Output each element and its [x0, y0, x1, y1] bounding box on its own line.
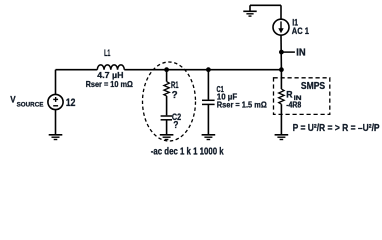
- svg-text:SOURCE: SOURCE: [17, 101, 44, 108]
- svg-text:Rser = 10 mΩ: Rser = 10 mΩ: [86, 79, 134, 89]
- wire IN label tick: [281, 51, 295, 53]
- voltage source V_SOURCE: [48, 70, 63, 135]
- svg-text:?: ?: [172, 90, 178, 101]
- wire down to R1: [166, 70, 168, 82]
- node junction dot A: [164, 67, 169, 72]
- dashed box SMPS: [274, 78, 330, 115]
- svg-text:Rser = 1.5 mΩ: Rser = 1.5 mΩ: [217, 99, 267, 109]
- wire RIN to ground: [280, 104, 282, 134]
- svg-text:-ac dec 1 k 1 1000 k: -ac dec 1 k 1 1000 k: [151, 147, 224, 158]
- svg-text:L1: L1: [104, 48, 110, 58]
- ground under C2: [160, 135, 174, 140]
- ground under C1: [202, 135, 216, 140]
- label RIN: [286, 88, 302, 102]
- capacitor C1: [202, 100, 215, 104]
- wire R1 to C2: [166, 96, 168, 115]
- ground under V_SOURCE: [49, 135, 63, 140]
- wire C2 to ground: [166, 120, 168, 134]
- wire down to RIN: [280, 70, 282, 89]
- svg-text:?: ?: [173, 120, 178, 131]
- svg-text:12: 12: [66, 97, 76, 109]
- wire top rail right segment: [124, 69, 281, 71]
- wire down to C1: [207, 70, 209, 100]
- current source I1: [273, 19, 289, 35]
- svg-text:V: V: [10, 95, 16, 106]
- capacitor C2: [161, 116, 172, 120]
- wire top rail left segment: [56, 69, 98, 71]
- wire top ground horizontal: [250, 4, 281, 6]
- svg-text:SMPS: SMPS: [301, 81, 325, 92]
- node junction dot B: [206, 67, 211, 72]
- node junction dot C: [279, 67, 284, 72]
- svg-text:AC 1: AC 1: [292, 26, 310, 37]
- label V_SOURCE: [10, 95, 44, 109]
- resistor RIN: [279, 89, 284, 104]
- svg-text:-4R8: -4R8: [286, 101, 302, 110]
- svg-text:P = U²/R = > R = –U²/P: P = U²/R = > R = –U²/P: [293, 123, 380, 134]
- svg-text:R: R: [286, 88, 293, 99]
- ground top left: [243, 5, 256, 16]
- wire C1 to ground: [207, 104, 209, 134]
- inductor L1: [97, 65, 124, 70]
- svg-text:IN: IN: [296, 47, 305, 58]
- node IN dot: [279, 50, 284, 55]
- wire ground to I1: [280, 5, 282, 19]
- wire I1 to IN node: [280, 35, 282, 69]
- svg-text:R1: R1: [171, 79, 179, 90]
- resistor R1: [164, 82, 169, 96]
- dashed ellipse damping network: [143, 62, 196, 141]
- ground under SMPS: [275, 135, 289, 140]
